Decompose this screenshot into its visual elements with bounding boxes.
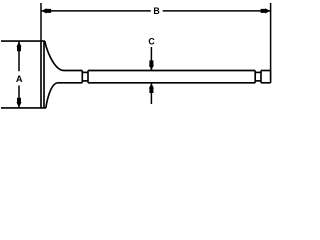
svg-text:B: B xyxy=(153,6,159,16)
svg-text:A: A xyxy=(16,74,23,84)
svg-text:C: C xyxy=(148,36,155,46)
